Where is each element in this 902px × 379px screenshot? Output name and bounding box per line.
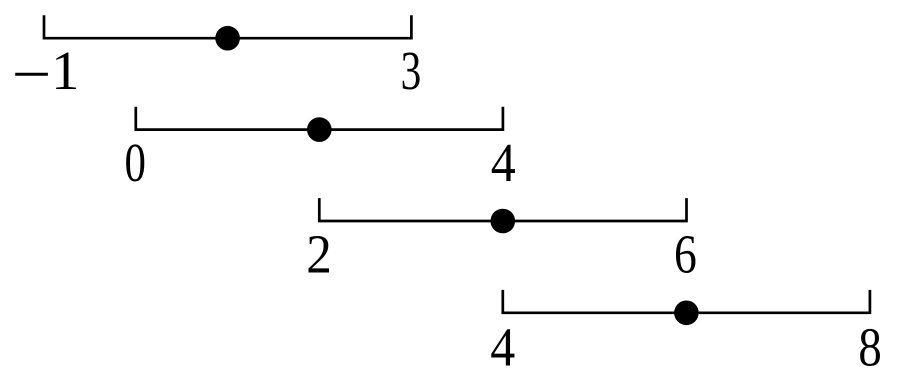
interval 1 midpoint dot at 1 [215,26,240,51]
svg-text:4: 4 [490,317,515,378]
svg-text:1: 1 [51,41,79,102]
interval 4 bracket [4,8] [503,290,870,313]
interval 2 bracket [0,4] [136,107,503,130]
svg-text:3: 3 [401,40,422,101]
interval 4 midpoint dot at 6 [674,301,699,326]
interval 1 bracket [-1,3] [44,15,411,38]
label -1 minus sign [15,73,48,76]
svg-text:8: 8 [858,318,881,378]
interval 2 midpoint dot at 2 [307,117,332,142]
svg-text:0: 0 [124,132,145,193]
svg-text:6: 6 [674,224,697,285]
svg-text:2: 2 [306,225,332,285]
svg-text:4: 4 [491,133,516,194]
interval 3 midpoint dot at 4 [491,209,516,234]
interval 3 bracket [2,6] [319,198,686,221]
